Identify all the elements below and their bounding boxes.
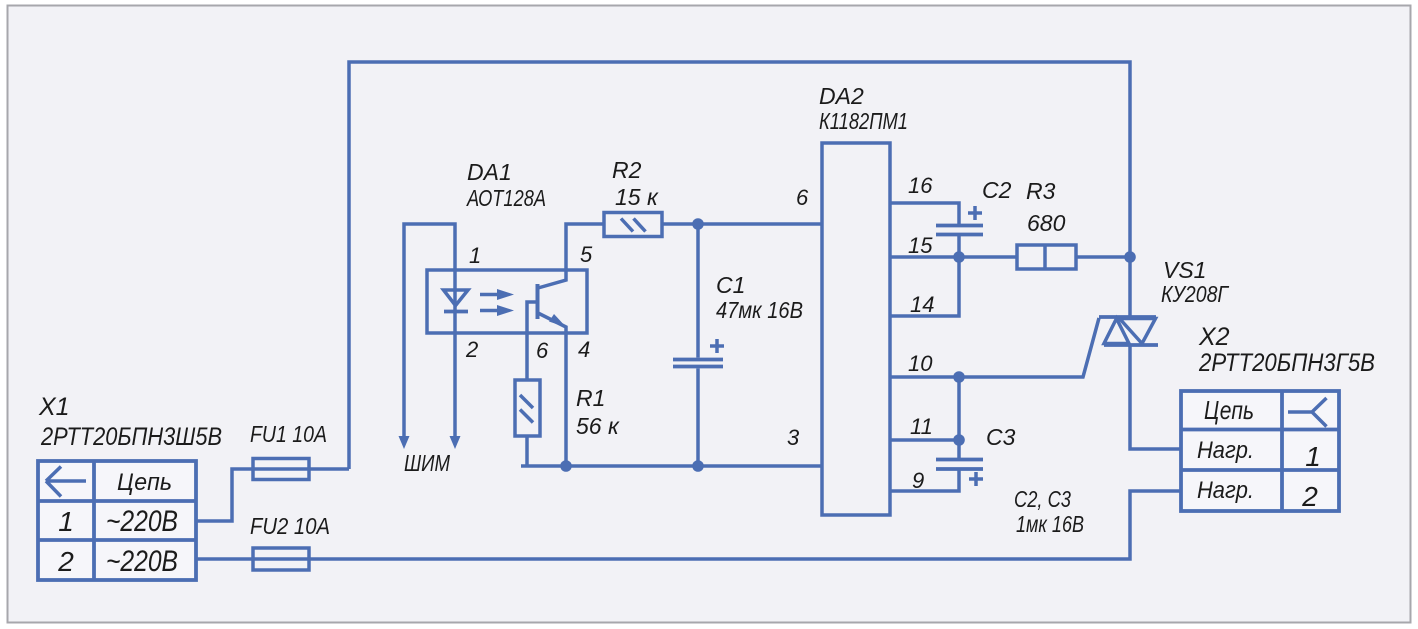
svg-text:2: 2: [1301, 481, 1318, 512]
svg-text:R1: R1: [576, 385, 605, 411]
svg-text:9: 9: [912, 468, 924, 493]
svg-text:АОТ128А: АОТ128А: [465, 185, 546, 211]
svg-text:Нагр.: Нагр.: [1197, 437, 1254, 464]
svg-text:680: 680: [1027, 210, 1066, 236]
svg-text:56 к: 56 к: [576, 413, 620, 439]
svg-text:~220В: ~220В: [106, 505, 178, 538]
svg-text:R3: R3: [1026, 178, 1056, 204]
svg-text:1: 1: [58, 506, 74, 537]
svg-text:FU2 10А: FU2 10А: [250, 513, 330, 539]
svg-text:4: 4: [578, 337, 590, 362]
svg-text:2: 2: [57, 546, 74, 577]
svg-text:C2, C3: C2, C3: [1014, 486, 1071, 512]
svg-text:10: 10: [908, 351, 933, 376]
svg-text:VS1: VS1: [1163, 257, 1206, 283]
svg-text:11: 11: [910, 414, 933, 439]
svg-text:2РТТ20БПН3Г5В: 2РТТ20БПН3Г5В: [1198, 349, 1375, 377]
svg-text:47мк 16В: 47мк 16В: [716, 297, 803, 323]
svg-text:C3: C3: [986, 424, 1016, 450]
svg-text:X2: X2: [1198, 323, 1230, 351]
svg-text:6: 6: [796, 185, 809, 210]
svg-text:Цепь: Цепь: [117, 469, 172, 496]
svg-text:DA2: DA2: [819, 83, 864, 109]
svg-text:C2: C2: [982, 177, 1012, 203]
svg-text:R2: R2: [612, 157, 642, 183]
svg-text:DA1: DA1: [467, 159, 512, 185]
svg-text:15 к: 15 к: [615, 184, 659, 210]
svg-text:~220В: ~220В: [106, 545, 178, 578]
svg-text:16: 16: [908, 173, 933, 198]
svg-text:КУ208Г: КУ208Г: [1161, 281, 1229, 307]
svg-text:15: 15: [908, 233, 933, 258]
svg-text:X1: X1: [38, 393, 70, 421]
svg-text:14: 14: [910, 292, 934, 317]
svg-text:3: 3: [787, 425, 800, 450]
svg-text:Цепь: Цепь: [1204, 395, 1254, 425]
svg-text:1мк 16В: 1мк 16В: [1016, 511, 1084, 537]
svg-text:1: 1: [1305, 441, 1321, 472]
svg-text:2: 2: [465, 337, 478, 362]
svg-text:FU1 10А: FU1 10А: [250, 421, 327, 447]
svg-text:1: 1: [469, 243, 481, 268]
svg-text:C1: C1: [716, 272, 745, 298]
svg-text:ШИМ: ШИМ: [404, 450, 451, 476]
svg-text:6: 6: [536, 338, 549, 363]
svg-text:Нагр.: Нагр.: [1197, 477, 1254, 504]
svg-text:5: 5: [580, 242, 593, 267]
svg-text:К1182ПМ1: К1182ПМ1: [819, 108, 908, 134]
svg-text:2РТТ20БПН3Ш5В: 2РТТ20БПН3Ш5В: [40, 423, 222, 451]
